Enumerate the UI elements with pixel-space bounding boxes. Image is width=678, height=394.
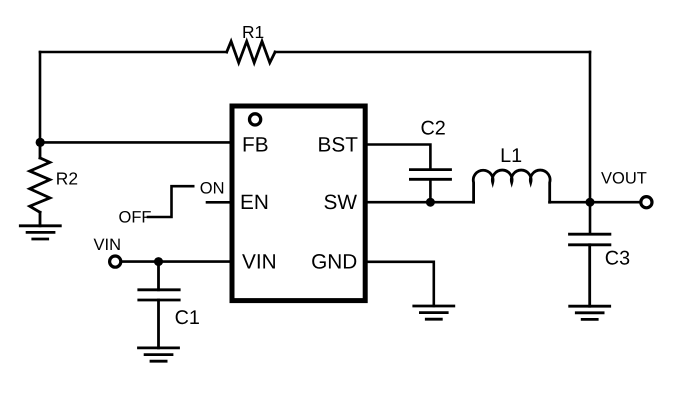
node VOUT junction	[586, 198, 595, 207]
svg-text:L1: L1	[500, 145, 522, 167]
terminal VIN	[110, 256, 121, 267]
svg-text:VIN: VIN	[94, 236, 122, 254]
op-amp U1 (regulator IC box)	[232, 106, 365, 301]
svg-text:ON: ON	[200, 180, 225, 198]
wire left rail	[39, 52, 42, 142]
ground GND pin	[414, 306, 454, 319]
capacitor C3	[570, 202, 610, 306]
wire BST to C2	[365, 145, 430, 170]
svg-text:SW: SW	[323, 191, 357, 214]
node VIN junction	[154, 257, 163, 266]
svg-text:VOUT: VOUT	[601, 170, 647, 188]
svg-text:EN: EN	[240, 191, 269, 214]
resistor R2	[30, 142, 50, 225]
ground C3	[570, 306, 610, 319]
wire to VOUT terminal	[590, 201, 640, 204]
wire top left segment	[40, 51, 227, 54]
wire L1 to VOUT node	[550, 201, 591, 204]
inductor L1	[473, 170, 550, 202]
svg-text:GND: GND	[311, 251, 357, 274]
ground C1	[139, 348, 179, 361]
switch S1 lever	[148, 186, 193, 217]
wire VIN to IC	[122, 260, 230, 263]
svg-text:OFF: OFF	[119, 208, 152, 226]
svg-text:C1: C1	[175, 307, 200, 329]
pin 1 marker	[250, 114, 261, 125]
node FB junction	[36, 138, 45, 147]
svg-text:BST: BST	[318, 133, 359, 156]
terminal VOUT	[641, 197, 652, 208]
svg-text:R1: R1	[242, 22, 264, 42]
svg-text:C3: C3	[605, 247, 630, 269]
ground R2	[20, 226, 60, 239]
wire GND pin to ground	[365, 262, 434, 306]
svg-text:VIN: VIN	[242, 251, 277, 274]
resistor R1	[227, 41, 275, 62]
wire right rail	[589, 52, 592, 202]
svg-text:C2: C2	[421, 118, 446, 140]
wire C2 to SW node	[429, 179, 432, 202]
capacitor C2	[410, 170, 450, 180]
wire top right segment	[275, 51, 590, 54]
svg-text:FB: FB	[242, 133, 269, 156]
svg-text:R2: R2	[56, 168, 78, 188]
wire FB to IC	[40, 141, 230, 144]
capacitor C1	[139, 262, 179, 348]
wire SW to L1	[365, 201, 474, 204]
wire EN stub	[207, 201, 230, 204]
node SW junction	[426, 198, 435, 207]
